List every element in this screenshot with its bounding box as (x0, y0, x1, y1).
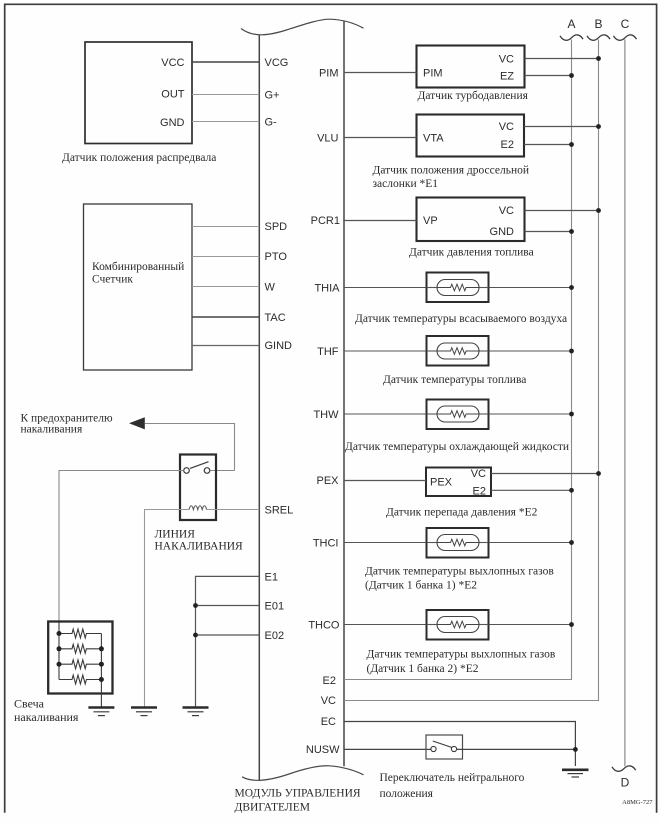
svg-text:Датчик температуры выхлопных г: Датчик температуры выхлопных газов (365, 566, 554, 578)
wire VP input (344, 220, 417, 222)
svg-text:THCI: THCI (313, 538, 339, 550)
glow fuse note text (21, 413, 113, 436)
svg-text:Датчик турбодавления: Датчик турбодавления (418, 90, 529, 102)
ground under relay coil (131, 708, 157, 716)
wire THCO through (344, 624, 572, 626)
svg-text:Датчик температуры выхлопных г: Датчик температуры выхлопных газов (367, 649, 556, 661)
glow plug resistor row 2 (59, 644, 101, 653)
svg-text:Датчик положения дроссельной: Датчик положения дроссельной (373, 165, 530, 177)
wire VTA VC to bus B (524, 126, 599, 128)
bus D break squiggle (612, 766, 636, 771)
wire W (192, 286, 259, 288)
coolant temp sensor THW (thermistor) (427, 400, 489, 430)
junction E02 (193, 633, 198, 638)
wire PIM VC to bus B (525, 58, 599, 60)
svg-text:накаливания: накаливания (21, 424, 83, 436)
svg-text:GND: GND (160, 117, 185, 129)
bus label A (567, 17, 575, 31)
svg-text:Свеча: Свеча (14, 697, 45, 711)
junction THF on bus A (569, 349, 574, 354)
wire PTO (192, 256, 259, 258)
svg-text:Датчик перепада давления *Е2: Датчик перепада давления *Е2 (386, 507, 538, 519)
bus label C (621, 17, 630, 31)
ECU pin GIND (265, 340, 293, 352)
svg-text:THCO: THCO (308, 620, 340, 632)
wire SREL to coil (207, 509, 260, 511)
svg-text:VC: VC (499, 121, 514, 133)
svg-text:положения: положения (380, 788, 434, 800)
svg-text:(Датчик 1 банка 1) *Е2: (Датчик 1 банка 1) *Е2 (365, 580, 477, 592)
intake air temp label (355, 313, 567, 325)
neutral switch label (380, 772, 525, 800)
turbo pressure sensor label (418, 90, 529, 102)
wire arrow riser (234, 423, 236, 471)
svg-text:VCG: VCG (265, 57, 289, 69)
svg-text:VP: VP (423, 215, 438, 227)
svg-text:Счетчик: Счетчик (92, 274, 133, 286)
svg-text:PEX: PEX (316, 475, 339, 487)
ECU module band: left edge wire (258, 35, 260, 781)
drawing part number (622, 799, 653, 806)
turbo pressure sensor box PIM (417, 46, 525, 88)
junction VTA VC (596, 124, 601, 129)
junction PEX E2 (569, 488, 574, 493)
ECU pin THF (317, 346, 339, 358)
glow plug resistor row 4 (59, 675, 101, 684)
exhaust gas temp sensor THCI (thermistor) (427, 528, 489, 558)
throttle position sensor box VTA (417, 115, 525, 157)
wire PEX E2 to bus A (491, 489, 572, 491)
exhaust temp 2 label (367, 649, 556, 676)
wire relay contact to riser (210, 470, 235, 472)
svg-text:OUT: OUT (161, 89, 185, 101)
bus C break squiggle (614, 35, 637, 40)
glow line label (155, 529, 244, 553)
ground under E1 chain (183, 708, 209, 716)
wire THF through (344, 350, 572, 352)
svg-text:VLU: VLU (317, 133, 338, 145)
svg-text:G-: G- (265, 117, 278, 129)
svg-text:Датчик положения распредвала: Датчик положения распредвала (62, 152, 216, 164)
glow plug junction dots (57, 631, 104, 682)
svg-text:(Датчик 1 банка 2) *Е2: (Датчик 1 банка 2) *Е2 (367, 663, 479, 675)
svg-text:VC: VC (321, 695, 336, 707)
ECU pin VCG (265, 57, 289, 69)
ground under glow plug box (88, 708, 114, 716)
wire GIND (192, 345, 259, 347)
ECU pin EC (321, 716, 336, 728)
junction PIM EZ (569, 73, 574, 78)
svg-text:Комбинированный: Комбинированный (92, 261, 184, 273)
ECU module band: right edge wire (343, 21, 345, 766)
svg-text:THIA: THIA (314, 283, 340, 295)
wire EC to ground drop (344, 722, 575, 767)
ECU pin VC (321, 695, 336, 707)
wire THW through (344, 413, 572, 415)
wire GND to G- (192, 121, 259, 123)
svg-text:SPD: SPD (265, 221, 288, 233)
ECU pin E1 (265, 572, 278, 584)
svg-text:заслонки *Е1: заслонки *Е1 (373, 178, 439, 190)
bus B break squiggle (587, 35, 610, 40)
exhaust temp 1 label (365, 566, 554, 592)
junction THCO on bus A (569, 622, 574, 627)
ECU pin E01 (265, 601, 285, 613)
wire VP GND to bus A (525, 231, 572, 233)
svg-text:Датчик температуры охлаждающей: Датчик температуры охлаждающей жидкости (345, 441, 569, 453)
ECU pin THIA (314, 283, 340, 295)
wire NUSW row right (457, 748, 576, 750)
ECU pin SPD (265, 221, 288, 233)
svg-text:E02: E02 (265, 630, 285, 642)
ECU pin G+ (265, 90, 280, 102)
throttle sensor label (373, 165, 530, 191)
svg-text:D: D (621, 776, 630, 790)
svg-text:ДВИГАТЕЛЕМ: ДВИГАТЕЛЕМ (235, 801, 310, 813)
ECU pin G- (265, 117, 278, 129)
ECU module band: top torn-edge wave (241, 19, 364, 35)
wire coil ground drop vertical (144, 510, 146, 708)
svg-text:W: W (265, 282, 276, 294)
svg-text:A: A (567, 17, 575, 31)
glow plug resistor row 1 (59, 629, 101, 638)
svg-text:VTA: VTA (423, 133, 444, 145)
svg-text:VCC: VCC (161, 57, 184, 69)
wire THCI through (344, 542, 572, 544)
ECU pin VLU (317, 133, 338, 145)
svg-text:B: B (594, 17, 602, 31)
svg-text:накаливания: накаливания (14, 710, 79, 724)
ECU pin PEX (316, 475, 339, 487)
svg-text:GND: GND (490, 226, 515, 238)
ECU pin PIM (319, 68, 339, 80)
junction VTA E2 (569, 142, 574, 147)
arrow to glow fuse (129, 417, 235, 429)
svg-text:NUSW: NUSW (306, 744, 340, 756)
glow plug box (48, 622, 112, 694)
svg-text:VC: VC (499, 54, 514, 66)
wire PIM EZ to bus A (525, 75, 572, 77)
junction VP GND (569, 229, 574, 234)
wire VCC to VCG (192, 61, 259, 63)
svg-text:МОДУЛЬ УПРАВЛЕНИЯ: МОДУЛЬ УПРАВЛЕНИЯ (235, 787, 361, 799)
svg-text:НАКАЛИВАНИЯ: НАКАЛИВАНИЯ (155, 541, 244, 553)
fuel temp label (383, 374, 526, 386)
ECU pin TAC (265, 312, 286, 324)
wire PEX input (344, 480, 426, 482)
junction E01 (193, 603, 198, 608)
wire TAC (192, 316, 259, 318)
wire coil to ground drop (144, 509, 189, 511)
ECU pin SREL (265, 505, 294, 517)
wire NUSW row left (344, 748, 431, 750)
svg-text:ЛИНИЯ: ЛИНИЯ (155, 529, 196, 541)
junction THIA on bus A (569, 285, 574, 290)
wire E01 (196, 605, 260, 607)
svg-text:PIM: PIM (423, 68, 443, 80)
svg-text:E2: E2 (323, 675, 336, 687)
wire PEX VC to bus B (491, 473, 599, 475)
fuel pressure sensor label (409, 247, 534, 259)
bus A wire (E2 sensor ground bus) (344, 40, 572, 680)
svg-text:A8MG-727: A8MG-727 (622, 799, 653, 806)
svg-text:E2: E2 (501, 139, 514, 151)
ECU pin E02 (265, 630, 285, 642)
bus label D (621, 776, 630, 790)
svg-text:E01: E01 (265, 601, 285, 613)
wire VP VC to bus B (525, 210, 599, 212)
wire THIA through (344, 287, 572, 289)
coolant temp label (345, 441, 569, 453)
ECU pin PCR1 (311, 215, 340, 227)
svg-text:Датчик давления топлива: Датчик давления топлива (409, 247, 534, 259)
ECU pin E2 (323, 675, 336, 687)
junction THW on bus A (569, 412, 574, 417)
bus A break squiggle (560, 35, 583, 40)
relay switch contacts (184, 462, 210, 474)
junction VP VC (596, 208, 601, 213)
svg-text:Переключатель нейтрального: Переключатель нейтрального (380, 772, 525, 784)
svg-text:TAC: TAC (265, 312, 286, 324)
differential pressure sensor box PEX (426, 468, 491, 498)
camshaft position sensor box (85, 42, 192, 144)
intake air temp sensor THIA (thermistor) (427, 273, 489, 303)
svg-text:E1: E1 (265, 572, 278, 584)
ECU pin THCI (313, 538, 339, 550)
bus B wire (VC supply bus) (344, 40, 599, 701)
ECU pin W (265, 282, 276, 294)
wire relay contact down to glow plugs (59, 471, 184, 680)
svg-text:EC: EC (321, 716, 336, 728)
glow relay box (180, 455, 216, 521)
wire OUT to G+ (192, 94, 259, 96)
relay coil (189, 506, 207, 510)
ECU module name label (235, 787, 361, 813)
wire E02 (196, 634, 260, 636)
ECU pin PTO (265, 251, 288, 263)
differential pressure label (386, 507, 538, 519)
ECU pin THW (313, 409, 339, 421)
wire VTA E2 to bus A (524, 144, 572, 146)
junction THCI on bus A (569, 540, 574, 545)
bus label B (594, 17, 602, 31)
svg-text:THF: THF (317, 346, 339, 358)
wire VTA input (344, 137, 417, 139)
svg-text:Датчик температуры всасываемог: Датчик температуры всасываемого воздуха (355, 313, 567, 325)
svg-text:E2: E2 (473, 486, 486, 498)
combination meter box (84, 204, 193, 370)
wire PIM input (344, 72, 417, 74)
svg-text:SREL: SREL (265, 505, 294, 517)
fuel temp sensor THF (thermistor) (427, 336, 489, 366)
svg-text:PCR1: PCR1 (311, 215, 340, 227)
svg-text:C: C (621, 17, 630, 31)
wire E1 (196, 576, 260, 707)
svg-text:GIND: GIND (265, 340, 293, 352)
ECU pin NUSW (306, 744, 340, 756)
junction PIM VC (596, 56, 601, 61)
glow plug right bus wire (100, 634, 102, 708)
ground at neutral switch (562, 770, 589, 777)
ECU pin THCO (308, 620, 340, 632)
glow plug resistor row 3 (59, 660, 101, 669)
neutral position switch box NUSW (426, 735, 463, 759)
fuel pressure sensor box VP (417, 198, 525, 242)
svg-text:PEX: PEX (430, 477, 453, 489)
svg-text:VC: VC (499, 205, 514, 217)
bus C wire (624, 40, 626, 767)
wire SPD (192, 226, 259, 228)
junction NUSW-EC (573, 747, 578, 752)
svg-text:G+: G+ (265, 90, 280, 102)
junction PEX VC (596, 471, 601, 476)
exhaust gas temp sensor THCO (thermistor) (427, 610, 489, 640)
svg-text:EZ: EZ (500, 71, 514, 83)
svg-text:PTO: PTO (265, 251, 288, 263)
camshaft sensor label (62, 152, 216, 164)
svg-text:Датчик температуры топлива: Датчик температуры топлива (383, 374, 526, 386)
svg-text:THW: THW (313, 409, 339, 421)
glow plug label (14, 697, 79, 725)
ECU module band: bottom torn-edge wave (242, 766, 364, 781)
svg-text:PIM: PIM (319, 68, 339, 80)
svg-text:VC: VC (471, 468, 486, 480)
